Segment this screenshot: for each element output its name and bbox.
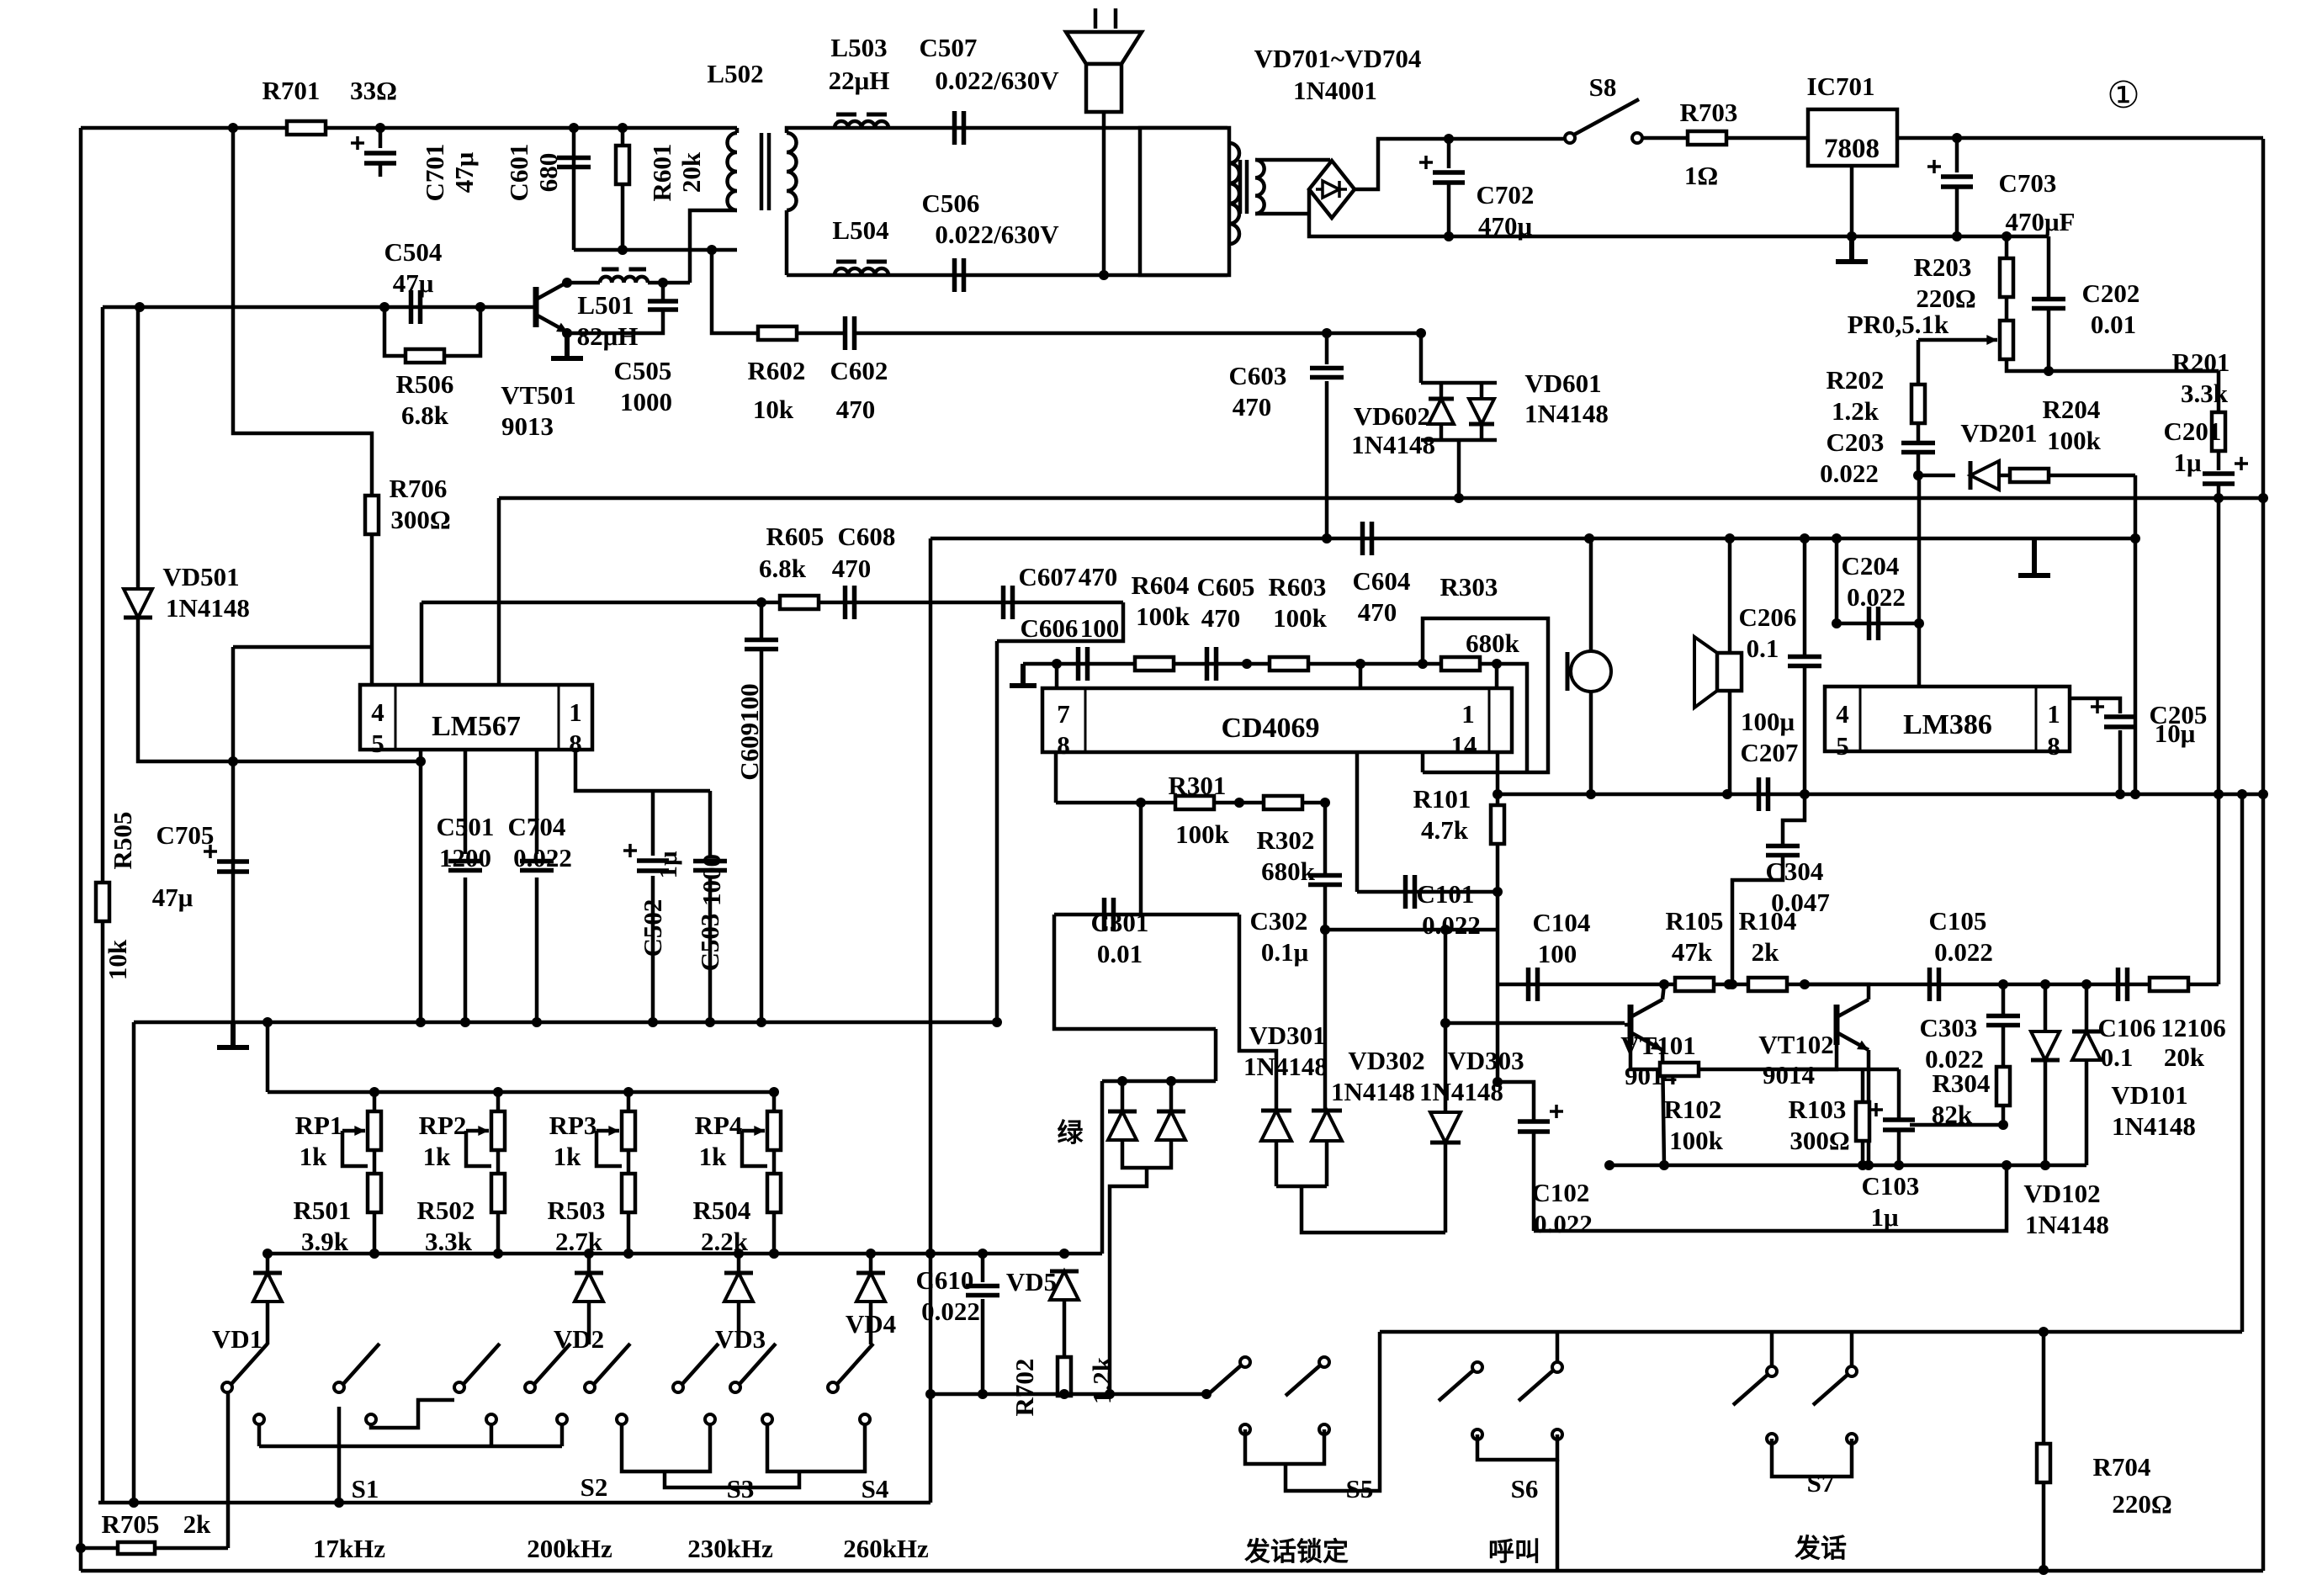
svg-text:1N4148: 1N4148 <box>166 593 250 623</box>
transformer L502 core <box>761 133 769 210</box>
wire C502 bottom <box>651 876 655 1022</box>
wire W1087 <box>1054 913 1239 917</box>
svg-text:5: 5 <box>371 729 384 758</box>
wire VD101 bottom <box>2085 1061 2089 1165</box>
node Y1657 left <box>925 1389 936 1399</box>
node spk2 top <box>1725 533 1735 543</box>
svg-text:1: 1 <box>1461 699 1475 729</box>
switch S3 pole a <box>585 1382 595 1392</box>
wire VD602 leads <box>1440 383 1444 399</box>
wire VD4 lead <box>869 1254 873 1272</box>
potentiometer RP1 <box>368 1111 381 1150</box>
wire C602 east <box>855 331 1421 336</box>
svg-text:680: 680 <box>533 153 563 193</box>
node green join <box>1105 1389 1115 1399</box>
wire VD301 bottom <box>1275 1141 1279 1186</box>
svg-text:R201: R201 <box>2172 347 2230 377</box>
wire S4 under <box>767 1424 865 1471</box>
diode VD302 <box>1312 1111 1342 1141</box>
svg-text:1000: 1000 <box>697 854 726 906</box>
capacitor C205 <box>2104 717 2136 727</box>
svg-text:1k: 1k <box>699 1142 728 1171</box>
diode VD2 <box>575 1273 603 1302</box>
node R204 railE <box>2130 533 2140 543</box>
node R603 east <box>1355 659 1365 669</box>
svg-text:47k: 47k <box>1672 937 1713 967</box>
svg-text:1.2k: 1.2k <box>1832 396 1880 426</box>
switch S4 pole a <box>730 1382 740 1392</box>
ic CD4069 <box>1042 688 1512 752</box>
wire S7 under <box>1772 1439 1852 1477</box>
node ebus c <box>1864 1160 1874 1170</box>
wire mid rail <box>499 496 2263 501</box>
node railE drop Y1490 <box>925 1249 936 1259</box>
wire rail E left drop <box>929 538 933 1503</box>
wire L502 primary top <box>735 128 740 133</box>
potentiometer RP2 <box>491 1111 505 1150</box>
node VD303 tee <box>1440 1018 1450 1028</box>
potentiometer RP4 wiper <box>742 1129 765 1133</box>
svg-text:RP2: RP2 <box>419 1111 467 1140</box>
svg-text:S7: S7 <box>1807 1468 1835 1498</box>
node C702 bottom <box>1444 231 1454 241</box>
svg-text:300Ω: 300Ω <box>1789 1126 1849 1155</box>
node C205 bottom2 <box>2115 789 2125 799</box>
node VT102 c <box>1800 979 1810 989</box>
wire Y1105 drop <box>1496 892 1500 1082</box>
diode VD4 <box>856 1273 885 1302</box>
switch S6 pole a <box>1472 1362 1482 1372</box>
svg-text:5: 5 <box>1836 731 1849 761</box>
inductor L504 <box>835 268 888 275</box>
svg-text:47μ: 47μ <box>152 883 194 912</box>
svg-text:R705: R705 <box>102 1509 160 1539</box>
capacitor C609 <box>745 640 778 650</box>
wire C202 bottom <box>2047 309 2051 371</box>
wire C603 bottom <box>1325 381 1329 538</box>
node W5 drop <box>416 756 426 766</box>
resistor R101 <box>1491 805 1504 844</box>
svg-text:VD4: VD4 <box>846 1309 896 1339</box>
wire R303 loop <box>1423 618 1548 772</box>
wire green top1 <box>1121 1081 1125 1111</box>
wire S7 pole feed b <box>1850 1332 1854 1366</box>
svg-text:8: 8 <box>1057 730 1070 760</box>
diode VD303 <box>1430 1112 1461 1143</box>
wire R603 drop <box>1359 664 1363 688</box>
svg-text:LM386: LM386 <box>1903 709 1992 740</box>
switch S1 pole b <box>334 1382 344 1392</box>
node C606 left <box>1052 659 1062 669</box>
node W954 b <box>1234 798 1244 808</box>
capacitor C102 <box>1518 1121 1550 1132</box>
wire C704 bottom <box>535 878 539 1022</box>
svg-text:C601: C601 <box>504 144 533 202</box>
svg-text:C503: C503 <box>695 914 724 972</box>
wire VD601 leads <box>1480 383 1484 399</box>
wire C204 wire <box>1837 622 1919 626</box>
wire VD30x down <box>1302 1186 1445 1233</box>
wire C202 branch <box>2047 236 2051 299</box>
node RP3 top <box>623 1087 634 1097</box>
switch S7 pole a <box>1767 1366 1777 1376</box>
wire RP rail <box>268 1090 774 1095</box>
wire C205 branch <box>2217 498 2221 984</box>
node R702 bottom <box>1059 1389 1069 1399</box>
resistor R201 <box>2212 412 2225 451</box>
svg-text:VD5: VD5 <box>1006 1267 1057 1296</box>
capacitor C204 <box>1869 607 1879 640</box>
node R704 top <box>2039 1327 2049 1337</box>
ground LM567 area <box>217 1022 249 1047</box>
svg-text:①: ① <box>2107 75 2139 116</box>
wire Y1105 <box>1325 928 1498 932</box>
wire RP1 lead <box>373 1092 377 1111</box>
wire VT101 c up <box>1662 984 1664 999</box>
svg-text:C504: C504 <box>384 237 443 267</box>
node RP2 top <box>493 1087 503 1097</box>
potentiometer RP2 wiper <box>466 1129 489 1133</box>
wire VD3 bottom <box>737 1302 741 1344</box>
svg-text:R304: R304 <box>1933 1068 1991 1098</box>
node C704 bottom <box>532 1017 542 1027</box>
svg-text:C104: C104 <box>1533 908 1591 937</box>
wire R704 col <box>2042 1332 2046 1444</box>
svg-text:C502: C502 <box>638 899 667 957</box>
svg-text:VD2: VD2 <box>554 1324 604 1354</box>
node pin drop a <box>416 1017 426 1027</box>
svg-text:9014: 9014 <box>1763 1060 1815 1090</box>
node speaker bottom <box>1099 270 1109 280</box>
svg-text:3.3k: 3.3k <box>2181 379 2229 408</box>
wire VD201-R204 <box>1999 474 2010 478</box>
svg-text:C203: C203 <box>1827 427 1885 457</box>
wire Y1170 <box>1498 983 2219 987</box>
ground IC701 <box>1836 236 1868 262</box>
wire mic bottom <box>1589 692 1593 794</box>
node W954 a <box>1136 798 1146 808</box>
wire VD3 lead <box>737 1254 741 1272</box>
svg-text:VD3: VD3 <box>715 1324 766 1354</box>
capacitor C505 <box>648 301 678 310</box>
wire R601 bottom <box>621 184 625 250</box>
svg-text:C303: C303 <box>1920 1013 1978 1042</box>
resistor R703 <box>1688 131 1726 145</box>
node R204 railF <box>2130 789 2140 799</box>
resistor R706 <box>365 496 379 534</box>
wire R201-C201 <box>2217 451 2221 470</box>
svg-text:R204: R204 <box>2043 395 2101 424</box>
svg-text:100k: 100k <box>1273 603 1328 633</box>
svg-text:8: 8 <box>2047 731 2060 761</box>
capacitor C207 <box>1759 777 1768 811</box>
switch S3 pole b <box>673 1382 683 1392</box>
wire R103 top <box>1861 1069 1865 1102</box>
node rail F border <box>2258 789 2268 799</box>
node C202 bottom <box>2044 366 2054 376</box>
node C204 left <box>1832 618 1842 628</box>
wire C303 bottom <box>2002 1026 2006 1067</box>
node right loop top <box>2237 789 2247 799</box>
svg-text:100μ: 100μ <box>1741 707 1795 736</box>
svg-text:20k: 20k <box>2164 1042 2205 1072</box>
diode VD101 <box>2072 1031 2101 1060</box>
resistor R505 <box>96 883 109 921</box>
svg-text:0.022: 0.022 <box>513 843 572 872</box>
svg-text:1N4148: 1N4148 <box>1351 430 1435 459</box>
wire VD303 tee line <box>1445 1021 1625 1026</box>
svg-text:100k: 100k <box>1175 819 1230 849</box>
wire R506 branch <box>384 307 405 356</box>
wire C501 drop <box>464 750 468 854</box>
capacitor C202 <box>2032 300 2065 309</box>
node VD101 top <box>2081 979 2092 989</box>
wire VD4 bottom <box>869 1302 873 1344</box>
capacitor C103 <box>1883 1120 1915 1130</box>
svg-text:绿: 绿 <box>1058 1118 1084 1148</box>
resistor R504 <box>767 1174 781 1212</box>
wire VD601 lead2 <box>1480 424 1484 440</box>
wire C702 bottom <box>1447 183 1451 236</box>
svg-text:L501: L501 <box>577 290 634 320</box>
wire speaker drop <box>1102 112 1106 275</box>
resistor R304 <box>1996 1067 2010 1106</box>
svg-text:L503: L503 <box>830 33 887 62</box>
node C603 top <box>1322 328 1332 338</box>
svg-text:VD303: VD303 <box>1447 1046 1524 1075</box>
wire VD501 bottom <box>138 618 421 761</box>
switch S5 pole a <box>1240 1357 1250 1367</box>
svg-text:C207: C207 <box>1741 738 1799 767</box>
switch S7 pole b <box>1847 1366 1857 1376</box>
node green2 <box>1166 1076 1176 1086</box>
svg-text:C106: C106 <box>2098 1013 2156 1042</box>
wire R602 to C602 <box>796 331 845 336</box>
wire R506 branch2 <box>445 307 480 356</box>
wire R304 bottom <box>2002 1106 2006 1125</box>
node C504 left <box>379 302 390 312</box>
node R503 bottom <box>623 1249 634 1259</box>
svg-text:33Ω: 33Ω <box>350 76 397 105</box>
wire pin5 tee <box>233 645 372 650</box>
capacitor C610 <box>966 1286 999 1296</box>
wire VDpair botbus <box>1421 438 1497 443</box>
node C702 top <box>1444 134 1454 144</box>
svg-text:C609100: C609100 <box>734 683 764 780</box>
wire C703 branch <box>1955 138 1959 172</box>
node C302 top <box>1320 798 1330 808</box>
svg-text:C105: C105 <box>1929 906 1987 936</box>
wire top rail left <box>81 126 737 130</box>
svg-text:RP1: RP1 <box>295 1111 343 1140</box>
wire S8 to R703 <box>1642 136 1688 141</box>
node RP4 top <box>769 1087 779 1097</box>
wire RP3 lead <box>627 1092 631 1111</box>
wire PRO bottom <box>2007 360 2219 371</box>
capacitor C104 <box>1529 968 1538 1001</box>
wire W789 <box>1023 662 1423 666</box>
diode green2 <box>1157 1111 1185 1140</box>
transformer T primary winding <box>1229 143 1239 244</box>
speaker earpiece <box>1694 637 1717 708</box>
wire R705 east <box>155 1546 228 1551</box>
wire S1 out <box>226 1392 231 1548</box>
svg-text:20k: 20k <box>676 151 706 193</box>
svg-text:C102: C102 <box>1532 1178 1590 1207</box>
node green1 <box>1117 1076 1127 1086</box>
wire S1 contact riser <box>257 1424 262 1446</box>
switch S1 pole a <box>222 1382 232 1392</box>
wire S5 link <box>1286 1332 1380 1491</box>
wire spk2 top <box>1728 538 1732 653</box>
wire VT102 c up <box>1805 984 1869 999</box>
wire C204 left col <box>1835 538 1839 623</box>
svg-text:R505: R505 <box>108 812 137 870</box>
wire R303 lead <box>1423 662 1441 666</box>
transistor VT101 <box>1628 1005 1634 1045</box>
svg-text:0.022: 0.022 <box>1422 910 1481 940</box>
svg-text:0.022: 0.022 <box>1534 1209 1593 1238</box>
wire R706 to pin4 <box>370 534 374 685</box>
inductor L501 <box>600 277 648 283</box>
node mic top <box>1584 533 1594 543</box>
node IC701 gnd rail <box>1847 231 1857 241</box>
svg-text:47μ: 47μ <box>393 268 434 298</box>
wire green top2 <box>1169 1081 1174 1111</box>
svg-text:680k: 680k <box>1466 628 1520 658</box>
wire C206 col2 <box>1803 667 1807 794</box>
svg-text:470: 470 <box>1079 562 1118 591</box>
wire C103 bottom <box>1897 1130 1901 1165</box>
wire VD1 bottom <box>266 1302 270 1344</box>
svg-text:PR0,5.1k: PR0,5.1k <box>1848 310 1949 339</box>
wire Y1786 <box>98 1501 931 1505</box>
svg-text:S2: S2 <box>581 1472 608 1502</box>
wire tank top2 <box>648 281 690 285</box>
wire spk2 bottom <box>1728 691 1732 794</box>
wire R202-C203 <box>1917 422 1921 443</box>
svg-text:0.022/630V: 0.022/630V <box>935 66 1059 95</box>
svg-text:R704: R704 <box>2093 1452 2151 1482</box>
ground LM386 <box>2018 538 2050 575</box>
capacitor C502 <box>637 861 669 871</box>
svg-text:R101: R101 <box>1413 784 1471 814</box>
node R203 top <box>2002 231 2012 241</box>
resistor R702 <box>1058 1357 1071 1396</box>
svg-text:R701: R701 <box>262 76 321 105</box>
wire S2 contact riser b <box>560 1424 565 1446</box>
svg-text:L502: L502 <box>707 59 763 88</box>
potentiometer PRO <box>2000 321 2013 359</box>
transformer T line-coupling box <box>1140 128 1229 275</box>
svg-text:1μ: 1μ <box>653 851 682 879</box>
svg-text:发话: 发话 <box>1794 1534 1847 1563</box>
node VD102 bottom <box>2040 1160 2050 1170</box>
wire R201 branch <box>2217 371 2221 412</box>
wire RP4 lead <box>772 1092 777 1111</box>
svg-text:C301: C301 <box>1091 908 1149 937</box>
node VD1 top <box>262 1249 273 1259</box>
svg-text:470μ: 470μ <box>1478 211 1533 241</box>
wire secondary bottom <box>1255 212 1309 216</box>
node Y1786 a <box>129 1498 139 1508</box>
svg-text:VD301: VD301 <box>1249 1021 1325 1050</box>
resistor R503 <box>622 1174 635 1212</box>
node C206 bottom <box>1800 789 1810 799</box>
wire right loop <box>2240 794 2245 1332</box>
node mic rail <box>1586 789 1596 799</box>
resistor R203 <box>2000 258 2013 297</box>
wire VD501 col <box>136 307 141 590</box>
svg-text:C701: C701 <box>420 144 449 202</box>
capacitor C605 <box>1207 647 1217 681</box>
svg-text:呼叫: 呼叫 <box>1488 1537 1540 1567</box>
svg-text:0.022: 0.022 <box>1820 459 1879 488</box>
wire rail F <box>1498 793 2263 797</box>
svg-text:R203: R203 <box>1914 252 1972 282</box>
wire tank right up <box>688 250 692 283</box>
svg-text:0.1: 0.1 <box>1747 634 1779 663</box>
svg-text:1: 1 <box>2047 699 2060 729</box>
capacitor C601 <box>557 158 591 167</box>
diode VD5 <box>1050 1271 1079 1300</box>
resistor R701 <box>287 121 326 135</box>
node ebus a <box>1604 1160 1614 1170</box>
wire W716 jog <box>997 602 1123 641</box>
wire C701 stub <box>379 163 383 177</box>
svg-text:L504: L504 <box>832 215 888 245</box>
wire S5 under <box>1245 1429 1324 1464</box>
wire C302 col <box>1323 803 1328 875</box>
capacitor C602 <box>846 316 855 350</box>
svg-text:82k: 82k <box>1932 1100 1973 1129</box>
wire right border <box>2261 139 2266 1571</box>
node C601 top <box>569 123 579 133</box>
svg-text:C607: C607 <box>1019 562 1077 591</box>
svg-text:6.8k: 6.8k <box>759 554 807 583</box>
wire C102 bottom <box>1532 1132 1536 1231</box>
svg-text:R702: R702 <box>1010 1359 1039 1417</box>
wire C101 riser <box>1355 752 1360 892</box>
node VT501 collector <box>562 278 572 288</box>
wire C204 right col <box>1917 475 1922 688</box>
wire R703 to IC701 <box>1726 136 1808 141</box>
svg-text:0.01: 0.01 <box>2091 310 2136 339</box>
svg-text:C204: C204 <box>1842 551 1900 581</box>
wire pin7 riser <box>1055 664 1059 688</box>
svg-text:VD201: VD201 <box>1960 418 2037 448</box>
svg-text:VT501: VT501 <box>501 380 576 410</box>
wire VT101 e down <box>1662 1050 1664 1165</box>
node C205 rail <box>2214 789 2224 799</box>
resistor R204 <box>2010 469 2049 482</box>
svg-text:220Ω: 220Ω <box>2112 1489 2171 1519</box>
node VD5 top <box>1059 1249 1069 1259</box>
node C503 bottom <box>705 1017 715 1027</box>
wire R702 bottom <box>1063 1394 1067 1396</box>
svg-text:R202: R202 <box>1827 365 1885 395</box>
svg-text:C505: C505 <box>614 356 672 385</box>
wire R505 col <box>101 307 105 883</box>
wire pin8 stub2 <box>1054 752 1058 803</box>
svg-text:S1: S1 <box>352 1474 379 1503</box>
svg-text:0.022: 0.022 <box>921 1296 980 1326</box>
resistor R102 <box>1660 1063 1699 1076</box>
potentiometer PRO wiper <box>1918 338 1997 342</box>
svg-text:R604: R604 <box>1132 570 1190 600</box>
node C201 bottom <box>2214 493 2224 503</box>
wire loop bottom <box>787 273 1227 278</box>
